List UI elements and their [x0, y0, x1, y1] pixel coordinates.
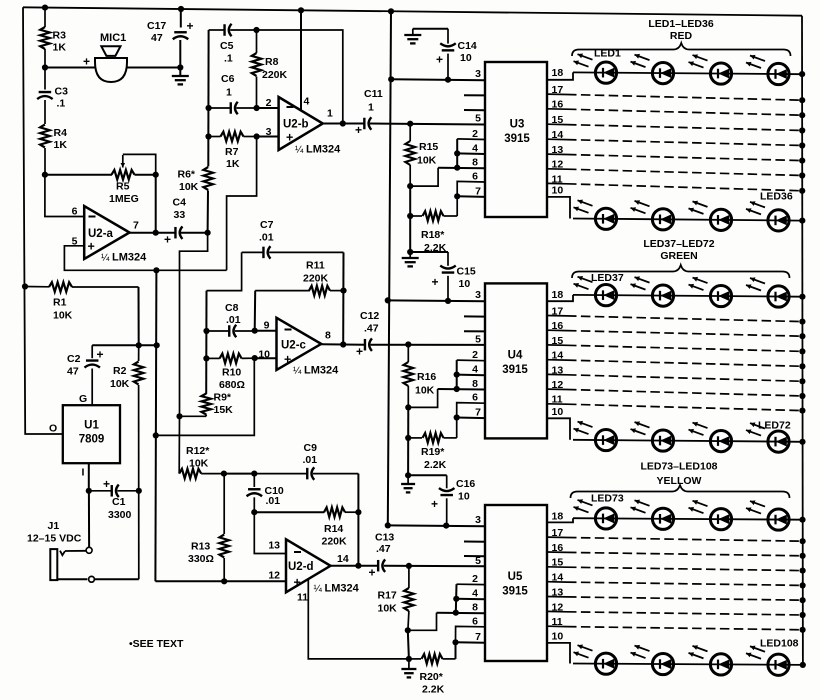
- svg-text:.01: .01: [259, 232, 274, 244]
- svg-text:18: 18: [552, 67, 564, 79]
- wire U3 stub a: [464, 94, 485, 96]
- svg-text:C2: C2: [67, 353, 81, 365]
- wire U5 pin2: [457, 583, 486, 585]
- wire U4 pin2: [457, 359, 485, 362]
- IC U4 3915 box: [485, 283, 547, 438]
- node top rail junction +9V bus: [388, 8, 394, 14]
- svg-text:3: 3: [266, 126, 272, 138]
- capacitor C7: [242, 251, 264, 253]
- node C14 bottom junction: [445, 77, 451, 83]
- capacitor C13: [377, 560, 379, 572]
- wire U5 pin11 dashed row: [567, 627, 802, 630]
- capacitor C5: [209, 29, 225, 31]
- svg-text:R16: R16: [417, 371, 436, 383]
- capacitor C1: [89, 490, 112, 492]
- svg-text:R7: R7: [225, 146, 239, 158]
- svg-text:3300: 3300: [108, 509, 132, 521]
- svg-text:14: 14: [337, 553, 349, 565]
- node U3 pin4 junction: [454, 150, 460, 156]
- svg-text:1K: 1K: [53, 42, 67, 54]
- svg-text:.47: .47: [364, 323, 379, 335]
- jack J1 sleeve wire: [57, 578, 87, 580]
- LED row 6 (LED105-LED108, pin10 U5): [573, 664, 803, 665]
- node ground junction (U3 chain): [407, 249, 413, 255]
- node bus row6: [800, 662, 806, 668]
- svg-text:•SEE TEXT: •SEE TEXT: [129, 638, 184, 650]
- capacitor C12: [364, 339, 366, 351]
- node R15 top junction: [407, 121, 413, 127]
- svg-text:13: 13: [552, 144, 564, 156]
- wire U4 pin16 dashed row: [567, 331, 802, 337]
- svg-text:5: 5: [475, 334, 481, 346]
- wire C9 right leg: [357, 474, 359, 513]
- wire U5 pin4: [456, 598, 485, 600]
- svg-text:I: I: [82, 467, 85, 479]
- svg-text:R18*: R18*: [421, 229, 445, 241]
- wire top +9V rail: [23, 7, 802, 15]
- resistor R17: [408, 566, 410, 588]
- svg-text:4: 4: [304, 96, 310, 108]
- resistor R9: [201, 394, 211, 415]
- node C10 bottom junction: [251, 509, 257, 515]
- wire U4 pin11 stub: [547, 403, 567, 405]
- node bus row pin11 U4: [799, 408, 805, 414]
- svg-text:R11: R11: [306, 260, 325, 272]
- wire U3 pin2-4-8 tie: [456, 139, 458, 168]
- node bias rail/U2-c junction: [153, 432, 159, 438]
- node bus row pin16 U4: [799, 333, 805, 339]
- svg-text:1: 1: [368, 102, 374, 114]
- wire U4 pin14 stub: [547, 359, 567, 361]
- wire U4 pin17 dashed row: [567, 316, 802, 322]
- wire U2-b pin2: [257, 107, 279, 109]
- node bus row pin13 U5: [800, 597, 806, 603]
- wire U5 stub a: [464, 541, 485, 543]
- svg-text:C11: C11: [364, 88, 383, 100]
- svg-text:R3: R3: [53, 30, 67, 42]
- wire U5 pin16 stub: [547, 551, 567, 553]
- svg-text:.1: .1: [224, 53, 233, 65]
- wire U5 pin17 dashed row: [567, 538, 802, 542]
- capacitor C14: [447, 29, 449, 44]
- node U2-b pin2 junction: [254, 105, 260, 111]
- wire U2-c pin10 to bias rail: [156, 358, 255, 435]
- wire U5 pin12 stub: [547, 610, 567, 612]
- wire U2-c feedback vertical: [342, 252, 344, 344]
- svg-text:3915: 3915: [504, 133, 530, 145]
- svg-text:10K: 10K: [179, 181, 199, 193]
- svg-text:6: 6: [472, 170, 478, 182]
- wire U4 pin13 stub: [547, 373, 567, 375]
- svg-text:O: O: [49, 423, 57, 435]
- ground under C17: [172, 75, 189, 77]
- node bus row pin17 U3: [799, 97, 805, 103]
- node U3 pin8 junction: [454, 165, 460, 171]
- svg-text:LED73: LED73: [591, 493, 624, 505]
- svg-text:18: 18: [552, 289, 564, 301]
- node C4/R6 junction: [205, 230, 211, 236]
- node bus row pin12 U5: [800, 612, 806, 618]
- svg-text:3915: 3915: [502, 586, 528, 598]
- wire U2-d pin12: [155, 580, 286, 582]
- node bus row1: [799, 71, 805, 77]
- svg-text:C16: C16: [456, 478, 475, 490]
- svg-text:+: +: [355, 123, 362, 137]
- svg-text:YELLOW: YELLOW: [657, 475, 702, 487]
- svg-text:C6: C6: [221, 73, 235, 85]
- node U4 pin3 rail junction: [385, 297, 391, 303]
- svg-text:C8: C8: [225, 302, 239, 314]
- wire U3 pin8 jog to R15: [410, 168, 438, 186]
- svg-text:12: 12: [552, 379, 564, 391]
- wire U2-a output: [130, 232, 156, 234]
- node U1 input/C1 junction: [86, 488, 92, 494]
- wire +9V rail vertical: [388, 11, 391, 525]
- LED row 1 (LED1-LED4, pin18 U3): [573, 72, 803, 74]
- capacitor C15: [447, 252, 449, 266]
- wire R5 left: [45, 174, 112, 176]
- wire U4 pin18 to LED row: [547, 295, 573, 301]
- svg-text:MIC1: MIC1: [100, 32, 126, 44]
- wire bias rail vertical: [155, 270, 156, 581]
- wire U5 pin10 to LED row: [547, 643, 570, 664]
- svg-text:J1: J1: [48, 520, 60, 532]
- wire R5 wiper loop: [123, 154, 156, 174]
- node bus row pin11 U3: [799, 188, 805, 194]
- svg-text:+: +: [286, 131, 293, 145]
- svg-text:U2-c: U2-c: [281, 340, 307, 352]
- svg-text:8: 8: [472, 602, 478, 614]
- microphone MIC1: [101, 46, 120, 56]
- resistor R10: [206, 357, 219, 359]
- wire U2-c output: [321, 343, 364, 346]
- node R7 left junction: [205, 133, 211, 139]
- wire U3 pin4: [457, 152, 485, 155]
- svg-text:R4: R4: [54, 127, 68, 139]
- svg-text:13: 13: [552, 364, 564, 376]
- svg-text:13: 13: [552, 586, 564, 598]
- jack J1 tip terminal: [86, 547, 92, 553]
- svg-text:2.2K: 2.2K: [422, 684, 445, 696]
- svg-text:10K: 10K: [189, 458, 209, 470]
- svg-text:U2-a: U2-a: [88, 228, 114, 240]
- wire U3 pin8: [438, 167, 485, 170]
- wire R15 node to R18: [409, 186, 411, 252]
- wire U4 pin14 dashed row: [567, 360, 802, 366]
- wire R14/C9 to output: [357, 512, 359, 566]
- svg-text:+: +: [432, 275, 439, 289]
- resistor R3: [44, 8, 46, 27]
- wire U3 pin11 dashed row: [567, 184, 802, 191]
- wire output to C4: [156, 232, 175, 234]
- svg-text:10: 10: [458, 491, 470, 503]
- wire node-X rail: [207, 30, 209, 167]
- svg-text:+: +: [294, 576, 301, 590]
- svg-text:U1: U1: [84, 420, 99, 432]
- node bus row pin13 U4: [799, 378, 805, 384]
- node C8 left junction: [203, 328, 209, 334]
- wire U4 pin3: [388, 299, 485, 302]
- svg-text:LED72: LED72: [758, 420, 791, 432]
- wire ground to C14: [413, 28, 448, 30]
- node R13 top junction: [221, 471, 227, 477]
- svg-text:17: 17: [552, 305, 564, 317]
- wire U5 pin7: [456, 641, 486, 643]
- svg-text:14: 14: [552, 129, 564, 141]
- wire U5 pin16 dashed row: [567, 552, 802, 555]
- svg-text:.01: .01: [226, 314, 241, 326]
- wire U2-c pin10: [255, 357, 277, 359]
- svg-text:C4: C4: [173, 197, 187, 209]
- label minus (U2-b): [287, 106, 294, 108]
- svg-text:14: 14: [552, 350, 564, 362]
- node R1/R2/C2 junction: [136, 342, 142, 348]
- wire U5 pin13 dashed row: [567, 597, 802, 600]
- jack J1 sleeve terminal: [89, 576, 95, 582]
- svg-text:8: 8: [325, 330, 331, 342]
- svg-text:R13: R13: [191, 541, 210, 553]
- svg-text:10K: 10K: [415, 385, 435, 397]
- node U5 pin4 junction: [453, 596, 459, 602]
- svg-text:R9*: R9*: [214, 392, 232, 404]
- node C1/R2 junction: [136, 488, 142, 494]
- svg-text:10: 10: [459, 278, 471, 290]
- wire U2-d pin13: [254, 512, 286, 553]
- wire U5 pin8: [437, 612, 486, 615]
- svg-text:+: +: [187, 19, 194, 33]
- node C16 bottom junction: [443, 523, 449, 529]
- wire mic right: [127, 67, 180, 69]
- svg-text:10K: 10K: [417, 155, 437, 167]
- svg-text:2: 2: [472, 349, 478, 361]
- wire U2-b output: [323, 123, 364, 125]
- node C5/R8 junction: [253, 27, 259, 33]
- svg-text:LED36: LED36: [760, 191, 793, 203]
- node R13 bottom junction: [221, 578, 227, 584]
- wire U4 pin8 jog to R16: [408, 389, 437, 407]
- wire U2-d pin11 to ground: [308, 580, 409, 659]
- wire U3 pin12 stub: [547, 168, 567, 170]
- ground U3 chain: [409, 252, 411, 257]
- svg-text:+: +: [356, 345, 363, 359]
- svg-text:9: 9: [264, 320, 270, 332]
- brace RED group: [572, 43, 791, 56]
- wire U4 pin4: [457, 374, 485, 377]
- wire right LED anode bus: [801, 16, 804, 665]
- svg-text:+: +: [83, 55, 90, 69]
- svg-text:LED37: LED37: [591, 272, 624, 284]
- wire bias node horizontal: [92, 344, 157, 346]
- wiper arrow R5: [122, 155, 124, 168]
- wire pin3 node to bias rail: [227, 137, 257, 271]
- svg-text:10: 10: [552, 406, 564, 418]
- resistor R15: [409, 124, 411, 141]
- wire J1 sleeve to R2: [94, 578, 138, 580]
- node R15 bottom junction: [407, 183, 413, 189]
- svg-text:1MEG: 1MEG: [109, 193, 139, 205]
- node U2-c pin10 junction: [252, 355, 258, 361]
- wire R17 node to ground: [408, 630, 409, 659]
- jack J1 plug: [50, 549, 57, 580]
- svg-text:10: 10: [258, 349, 270, 361]
- wire U4 pin17 stub: [547, 315, 567, 317]
- node R9 bottom junction: [176, 413, 182, 419]
- node U4 pin8 junction: [454, 386, 460, 392]
- svg-text:6: 6: [472, 392, 478, 404]
- svg-text:5: 5: [475, 555, 481, 567]
- node R4/R5 junction: [42, 172, 48, 178]
- wire U3 pin16 stub: [547, 108, 567, 110]
- wire U3 pin13 stub: [547, 153, 567, 155]
- node bus row pin12 U3: [799, 172, 805, 178]
- svg-text:+: +: [431, 497, 438, 511]
- node C15 bottom junction: [445, 298, 451, 304]
- svg-text:7809: 7809: [79, 434, 105, 446]
- wire U2-b pin4 from rail: [300, 10, 302, 110]
- LED row 3 (LED37-LED40, pin18 U4): [573, 295, 803, 297]
- svg-text:R12*: R12*: [186, 445, 210, 457]
- svg-text:16: 16: [552, 542, 564, 554]
- capacitor C6: [209, 107, 231, 109]
- op-amp U2-d: [286, 539, 331, 592]
- resistor R19: [408, 437, 422, 439]
- svg-text:C15: C15: [457, 266, 476, 278]
- svg-text:+: +: [164, 233, 171, 247]
- capacitor C16: [446, 475, 448, 488]
- op-amp U2-b: [279, 97, 323, 150]
- svg-text:8: 8: [472, 157, 478, 169]
- svg-text:2.2K: 2.2K: [424, 459, 447, 471]
- svg-text:11: 11: [552, 394, 563, 406]
- wire U4 pin6: [457, 403, 485, 438]
- node U5 pin7 junction: [452, 639, 458, 645]
- svg-text:10: 10: [552, 631, 564, 643]
- wire U3 pin17 dashed row: [567, 95, 802, 101]
- svg-text:LED37–LED72: LED37–LED72: [643, 238, 714, 250]
- svg-text:.1: .1: [57, 98, 66, 110]
- svg-text:330Ω: 330Ω: [188, 553, 214, 565]
- svg-text:16: 16: [552, 99, 564, 111]
- wire U1 input to J1 tip: [88, 491, 90, 548]
- node R18 left junction: [407, 213, 413, 219]
- wire U4 pin11 dashed row: [567, 404, 802, 410]
- svg-text:R10: R10: [222, 367, 241, 379]
- wire U3 pin17 stub: [547, 93, 567, 95]
- svg-text:12: 12: [552, 159, 564, 171]
- wire U3 stub b: [464, 109, 485, 111]
- ground U5 chain: [408, 659, 410, 668]
- resistor R8: [256, 30, 258, 53]
- node bus row pin11 U5: [800, 627, 806, 633]
- node ground junction (U5 chain): [406, 656, 412, 662]
- resistor R12: [179, 469, 201, 479]
- node bus row pin13 U3: [799, 158, 805, 164]
- svg-text:.01: .01: [266, 495, 281, 507]
- svg-text:R1: R1: [53, 297, 67, 309]
- svg-text:LM324: LM324: [304, 365, 339, 377]
- wire R11 to pin9: [254, 291, 257, 331]
- svg-text:R17: R17: [378, 590, 397, 602]
- label minus (U2-d): [294, 551, 301, 553]
- svg-text:14: 14: [552, 572, 564, 584]
- svg-text:LM324: LM324: [112, 252, 147, 264]
- node bus row pin15 U4: [799, 348, 805, 354]
- svg-text:U3: U3: [510, 119, 525, 131]
- svg-text:1: 1: [327, 108, 333, 120]
- LED row 2 (LED33-LED36, pin10 U3): [573, 219, 803, 221]
- wire U2-b feedback loop: [257, 30, 343, 124]
- jack J1 tip contact: [60, 551, 65, 556]
- wire U3 pin14 stub: [547, 138, 567, 140]
- wire U5 pin8 jog to R17: [408, 613, 437, 631]
- node bias vertical junction: [154, 342, 160, 348]
- svg-text:+: +: [436, 53, 443, 67]
- wire R5 right: [135, 174, 156, 176]
- wire U4 stub b: [464, 330, 485, 332]
- node R10 left junction: [203, 355, 209, 361]
- IC U1 7809: [63, 405, 120, 463]
- svg-text:R6*: R6*: [178, 169, 196, 181]
- wire U4 pin7: [457, 417, 485, 420]
- capacitor C11: [363, 118, 365, 130]
- wire C10 to R14: [254, 511, 324, 513]
- wire U4 pin10 to LED row: [547, 418, 570, 440]
- svg-text:C5: C5: [220, 40, 234, 52]
- svg-text:7: 7: [475, 185, 481, 197]
- svg-text:¼: ¼: [293, 365, 302, 377]
- wire U3 pin16 dashed row: [567, 109, 802, 115]
- node R19 left junction: [405, 435, 411, 441]
- svg-text:2: 2: [472, 573, 478, 585]
- node bus row3: [799, 294, 805, 300]
- node U5 pin3 rail junction: [385, 522, 391, 528]
- wire U2-b pin3: [257, 136, 279, 138]
- wire U3 pin3: [391, 78, 485, 81]
- node bias rail top junction: [153, 267, 159, 273]
- node U5 pin8 junction: [453, 610, 459, 616]
- wire U5 pin12 dashed row: [567, 612, 802, 615]
- node R14 right junction: [355, 509, 361, 515]
- svg-text:3915: 3915: [502, 364, 528, 376]
- svg-text:1K: 1K: [54, 139, 68, 151]
- svg-text:¼: ¼: [101, 252, 110, 264]
- svg-text:3: 3: [475, 289, 481, 301]
- svg-text:220K: 220K: [262, 69, 288, 81]
- node bus row pin17 U4: [799, 319, 805, 325]
- wire R1 down to bias node: [138, 287, 140, 345]
- svg-text:C7: C7: [260, 219, 274, 231]
- svg-text:C14: C14: [458, 40, 477, 52]
- svg-text:4: 4: [472, 142, 478, 154]
- node R3/MIC junction: [42, 64, 48, 70]
- svg-text:33: 33: [174, 209, 186, 221]
- wire node-X rail U2-c: [205, 291, 207, 394]
- svg-text:2: 2: [472, 128, 478, 140]
- node bus row4: [799, 439, 805, 445]
- node C6 left junction: [206, 105, 212, 111]
- resistor R2: [138, 345, 140, 361]
- svg-text:11: 11: [297, 592, 308, 604]
- svg-text:C9: C9: [304, 442, 318, 454]
- wire U5 pin3: [388, 524, 485, 527]
- brace GREEN group: [572, 265, 790, 278]
- svg-text:8: 8: [472, 378, 478, 390]
- node bus row pin15 U5: [800, 568, 806, 574]
- svg-text:6: 6: [472, 615, 478, 627]
- svg-text:+: +: [88, 240, 95, 254]
- wire U5 pin13 stub: [547, 596, 567, 598]
- wire U4 pin12 dashed row: [567, 390, 802, 397]
